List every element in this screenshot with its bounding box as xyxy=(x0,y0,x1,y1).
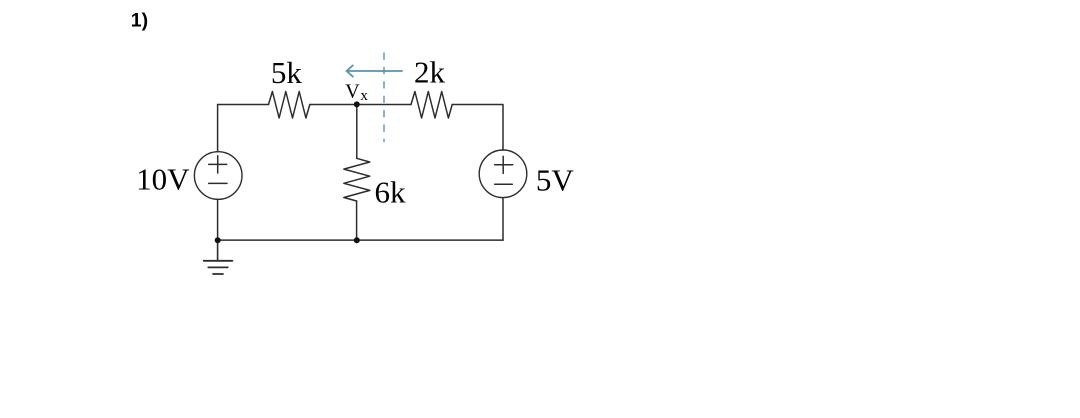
V1 plus sign xyxy=(209,156,227,173)
svg-text:2k: 2k xyxy=(414,55,446,90)
voltage source V2 circle xyxy=(479,150,527,198)
bottom-middle junction dot xyxy=(354,237,360,243)
wire: top-left horizontal (left corner to R1 left) xyxy=(218,104,269,106)
wire: V1 bottom to bottom-left junction xyxy=(217,199,219,240)
wire: V2 bottom to bottom-right corner xyxy=(502,198,504,240)
current arrow (blue, pointing left) xyxy=(347,65,402,76)
cut line (blue dashed) xyxy=(383,53,385,143)
ground bar 1 xyxy=(204,260,233,262)
wire: R3 bottom to bottom wire xyxy=(356,201,358,240)
svg-text:1): 1) xyxy=(131,10,148,32)
wire: left vertical (top corner down to V1 top) xyxy=(217,105,219,152)
bottom-left junction dot xyxy=(215,237,221,243)
wire: R2 right to top-right corner, down to V2 top xyxy=(452,105,503,151)
svg-text:6k: 6k xyxy=(375,175,407,210)
resistor R2 2k zigzag xyxy=(411,92,452,119)
svg-text:5k: 5k xyxy=(271,55,303,90)
svg-text:V: V xyxy=(345,80,360,102)
ground bar 2 xyxy=(208,266,228,268)
resistor R1 5k zigzag xyxy=(269,92,310,119)
V2 plus sign xyxy=(495,156,513,173)
svg-text:10V: 10V xyxy=(136,162,190,197)
wire: middle vertical (node Vx down to R3 top) xyxy=(356,105,358,159)
V1 minus sign xyxy=(209,182,227,184)
resistor R3 6k zigzag xyxy=(344,158,370,201)
wire: node Vx to R2 left xyxy=(357,104,411,106)
voltage source V1 circle xyxy=(194,152,242,200)
wire: R1 right to node Vx xyxy=(310,104,357,106)
ground stem xyxy=(217,240,219,261)
wire: bottom horizontal right half xyxy=(357,239,503,241)
node Vx junction dot xyxy=(354,101,360,107)
svg-text:5V: 5V xyxy=(536,163,575,198)
V2 minus sign xyxy=(495,183,513,185)
ground bar 3 xyxy=(213,273,223,275)
wire: bottom horizontal left half xyxy=(218,239,357,241)
svg-text:x: x xyxy=(360,88,368,104)
